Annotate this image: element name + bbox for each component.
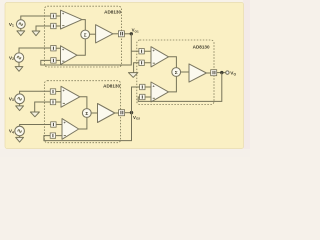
wire V2 to REF pin xyxy=(19,48,51,53)
wire VO2 feedback run U2 xyxy=(44,113,132,141)
wires pins to buffer A U3 xyxy=(144,51,151,63)
node VO1 junction dot xyxy=(130,32,133,35)
wire output amp to out pin xyxy=(113,33,119,35)
ground for V1 xyxy=(20,29,22,31)
ground at U3 -IN xyxy=(128,73,138,78)
svg-text:V1: V1 xyxy=(9,22,14,28)
wire ground stub to U2 -IN xyxy=(35,102,51,112)
wire out pin to node VO xyxy=(217,72,226,74)
pin box U1 FB xyxy=(51,58,56,63)
wire VO2 up to U3 REF xyxy=(132,87,140,113)
wire summer to output amp U3 xyxy=(181,71,189,73)
summer U2 xyxy=(82,109,91,118)
wires pins to buffer B U2 xyxy=(56,125,62,136)
wire buffer B to summer xyxy=(77,39,85,55)
svg-text:AD8130: AD8130 xyxy=(193,45,210,50)
wire buffer A to summer U2 xyxy=(80,97,87,109)
svg-text:AD8130: AD8130 xyxy=(104,10,121,15)
pin box U2 -IN xyxy=(50,99,55,104)
pin box U2 REF xyxy=(51,122,56,127)
source V4 xyxy=(15,126,25,136)
svg-text:V2: V2 xyxy=(9,55,14,61)
buffer A of U1 xyxy=(61,10,83,29)
pin box U1 REF xyxy=(51,46,56,51)
buffer B of U1 xyxy=(61,46,78,65)
wires pins to buffer A U2 xyxy=(56,92,61,103)
wire VO1 vertical feedback run xyxy=(41,34,132,65)
wire VO feedback run U3 xyxy=(138,73,222,102)
wire V3 to pin box xyxy=(20,91,51,94)
pin box U3 -IN xyxy=(139,60,144,65)
pin box U1 -IN xyxy=(51,23,56,28)
source V2 xyxy=(14,53,23,62)
pin box U2 OUT xyxy=(119,110,125,116)
wire out pin to node VO1 xyxy=(124,33,131,35)
pin box U3 FB xyxy=(140,94,145,99)
wire output amp to out pin U3 xyxy=(206,72,210,74)
svg-text:AD8130: AD8130 xyxy=(103,84,120,89)
wire V4 to REF pin U2 xyxy=(20,125,51,127)
wire V1 to pin box xyxy=(21,16,51,20)
wire pins to buffer B xyxy=(56,48,60,60)
node VO2 junction dot xyxy=(130,111,133,114)
svg-text:VO2: VO2 xyxy=(133,115,140,121)
source V1 xyxy=(16,20,25,29)
wire buffer B to summer U3 xyxy=(169,76,177,92)
pin box U1 OUT xyxy=(118,31,124,37)
output terminal VO xyxy=(226,71,229,74)
ground for V4 xyxy=(19,136,21,138)
buffer A of U3 xyxy=(151,47,169,67)
wire buffer A to summer xyxy=(82,20,85,31)
buffer B of U3 xyxy=(151,82,169,102)
ground for V2 xyxy=(18,62,20,66)
output amp U1 xyxy=(96,25,113,43)
wire summer to output amp xyxy=(90,33,96,35)
ground at U1 -IN xyxy=(32,31,40,36)
wire summer to output amp U2 xyxy=(91,112,97,114)
wire VO1 branch to U3 +IN xyxy=(131,50,139,52)
svg-text:Σ: Σ xyxy=(84,32,87,38)
ground for V3 xyxy=(19,104,21,106)
pin box U1 +IN xyxy=(51,13,56,18)
wire ground stub to U3 -IN xyxy=(134,63,139,73)
svg-text:VO1: VO1 xyxy=(132,28,139,34)
wire buffer B to summer U2 xyxy=(79,117,87,129)
op-amp block U1 dashed outline xyxy=(44,6,121,67)
svg-text:VO: VO xyxy=(230,71,236,77)
buffer B of U2 xyxy=(62,119,79,140)
op-amp block U3 dashed outline xyxy=(137,40,214,105)
wire output amp to out pin U2 xyxy=(115,112,119,114)
wires pins to buffer B U3 xyxy=(145,87,151,97)
svg-text:V4: V4 xyxy=(9,129,14,135)
pin box U2 FB xyxy=(50,133,55,138)
pin box U3 +IN xyxy=(139,49,144,54)
source V3 xyxy=(15,94,25,104)
op-amp block U2 dashed outline xyxy=(44,81,120,143)
summer U3 xyxy=(172,68,181,77)
output amp U3 xyxy=(189,64,206,82)
page margin background xyxy=(0,0,250,157)
pin box U2 +IN xyxy=(50,89,55,94)
wire buffer A to summer U3 xyxy=(169,57,177,68)
figure background panel xyxy=(5,3,244,149)
pin box U3 REF xyxy=(140,84,145,89)
ground at U2 -IN xyxy=(30,112,39,117)
output amp U2 xyxy=(98,104,115,123)
node VO junction dot xyxy=(220,71,223,74)
wire out pin to node VO2 xyxy=(125,112,132,114)
summer U1 xyxy=(81,30,90,39)
wire ground stub to -IN pin xyxy=(36,26,51,31)
svg-text:Σ: Σ xyxy=(175,70,178,76)
pin box U3 OUT xyxy=(211,70,217,76)
svg-text:V3: V3 xyxy=(9,96,14,102)
wire pin to buffer xyxy=(56,16,60,26)
buffer A of U2 xyxy=(61,86,80,107)
svg-text:Σ: Σ xyxy=(85,111,88,117)
